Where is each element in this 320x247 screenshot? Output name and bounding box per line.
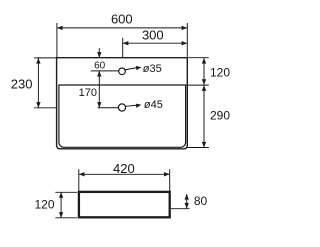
- svg-text:230: 230: [11, 76, 33, 91]
- svg-text:120: 120: [210, 66, 230, 80]
- svg-text:170: 170: [79, 87, 97, 99]
- svg-text:120: 120: [34, 197, 54, 211]
- svg-text:ø45: ø45: [144, 99, 163, 111]
- svg-text:290: 290: [210, 109, 230, 123]
- svg-text:420: 420: [113, 161, 135, 176]
- svg-text:60: 60: [94, 60, 106, 71]
- svg-text:600: 600: [111, 12, 133, 27]
- svg-text:80: 80: [194, 194, 208, 208]
- svg-text:ø35: ø35: [143, 63, 162, 75]
- svg-text:300: 300: [142, 28, 164, 43]
